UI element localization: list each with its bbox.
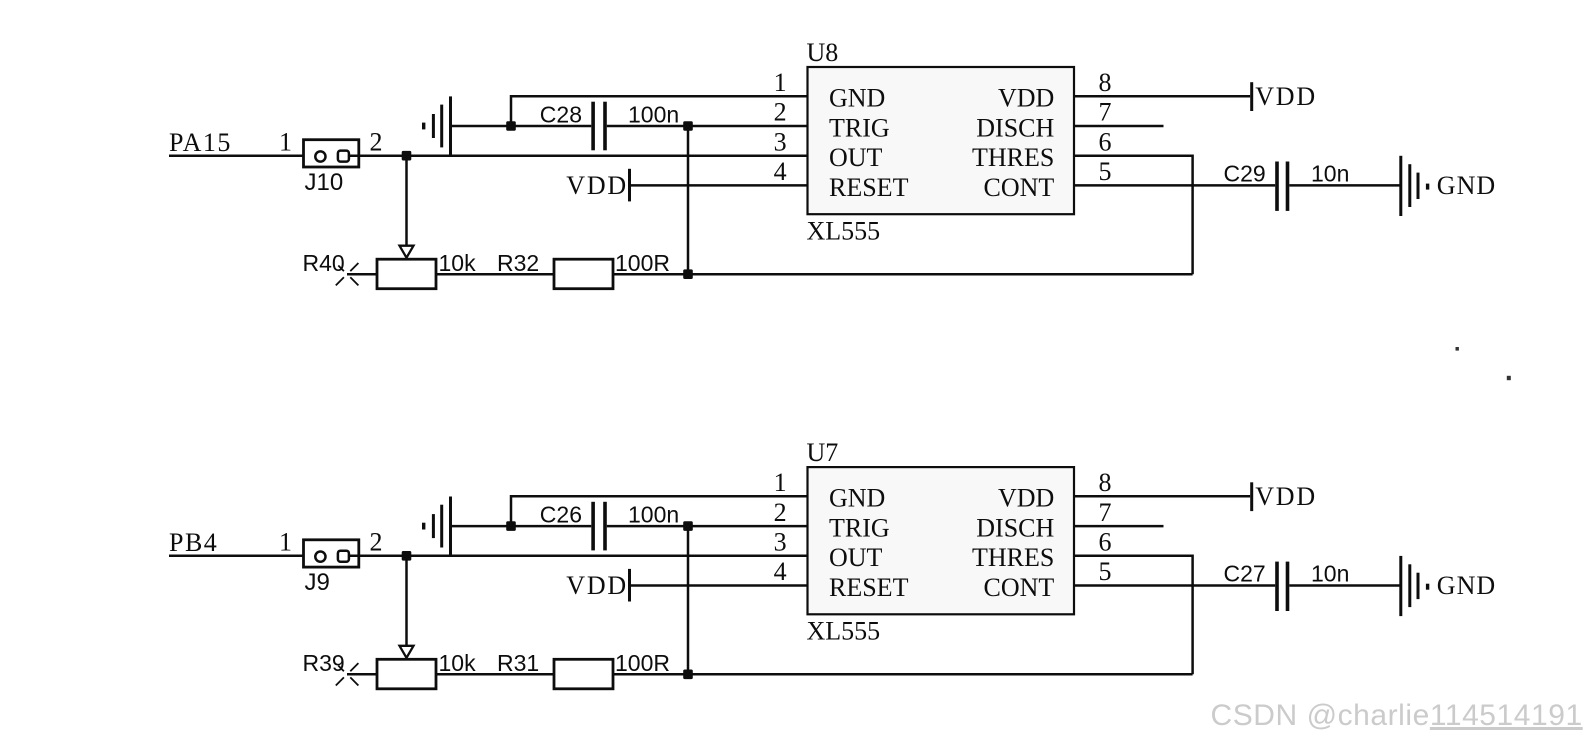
svg-text:100n: 100n	[628, 101, 679, 127]
wire	[1074, 495, 1250, 498]
svg-text:6: 6	[1099, 528, 1112, 557]
wire	[405, 156, 408, 247]
svg-text:10n: 10n	[1311, 161, 1349, 187]
svg-text:VDD: VDD	[566, 571, 628, 600]
wire	[1074, 184, 1275, 187]
svg-text:J9: J9	[305, 569, 330, 596]
svg-text:2: 2	[774, 498, 787, 527]
svg-text:10k: 10k	[439, 650, 477, 676]
svg-text:5: 5	[1099, 157, 1112, 186]
svg-text:2: 2	[774, 98, 787, 127]
resistor R31 body	[554, 659, 613, 689]
power port VDD (reset)	[628, 569, 631, 602]
svg-text:VDD: VDD	[998, 84, 1054, 113]
junction	[506, 521, 516, 531]
svg-text:100R: 100R	[615, 650, 670, 676]
svg-text:R39: R39	[303, 650, 345, 676]
wire	[511, 496, 808, 526]
junction	[683, 670, 693, 680]
svg-text:CONT: CONT	[984, 573, 1055, 602]
wire	[405, 556, 408, 647]
ground symbol GND	[1399, 156, 1402, 216]
svg-text:THRES: THRES	[972, 143, 1054, 172]
wire	[1074, 556, 1193, 675]
svg-text:100n: 100n	[628, 501, 679, 527]
svg-text:OUT: OUT	[829, 143, 883, 172]
svg-text:XL555: XL555	[807, 616, 881, 645]
wire	[613, 273, 1193, 276]
svg-text:3: 3	[774, 127, 787, 156]
svg-text:DISCH: DISCH	[976, 113, 1054, 142]
wire	[1289, 184, 1401, 187]
wire	[436, 273, 554, 276]
wire	[511, 96, 808, 126]
svg-text:GND: GND	[829, 84, 885, 113]
svg-text:1: 1	[774, 468, 787, 497]
junction	[683, 521, 693, 531]
svg-text:U8: U8	[807, 38, 839, 67]
speck	[1456, 347, 1459, 351]
power port VDD (pin 8)	[1250, 82, 1253, 111]
svg-text:7: 7	[1099, 498, 1112, 527]
svg-text:2: 2	[370, 128, 383, 157]
junction	[683, 269, 693, 279]
wire	[1074, 125, 1164, 128]
svg-text:THRES: THRES	[972, 543, 1054, 572]
capacitor C28	[591, 102, 595, 151]
wire	[607, 525, 808, 528]
svg-text:DISCH: DISCH	[976, 514, 1054, 543]
speck	[1507, 376, 1511, 380]
svg-text:1: 1	[774, 68, 787, 97]
wire	[347, 673, 377, 676]
svg-text:VDD: VDD	[998, 484, 1054, 513]
svg-text:10k: 10k	[439, 250, 477, 276]
ground symbol GND	[1399, 556, 1402, 616]
svg-text:CONT: CONT	[984, 173, 1055, 202]
svg-text:5: 5	[1099, 557, 1112, 586]
svg-text:OUT: OUT	[829, 543, 883, 572]
svg-text:4: 4	[774, 557, 787, 586]
potentiometer R40 wiper arrow	[400, 246, 414, 258]
capacitor C26	[591, 502, 595, 551]
svg-text:1: 1	[279, 528, 292, 557]
svg-text:VDD: VDD	[566, 171, 628, 200]
wire	[451, 525, 592, 528]
svg-text:TRIG: TRIG	[829, 113, 890, 142]
svg-text:R40: R40	[303, 250, 345, 276]
potentiometer R39 body	[377, 659, 436, 689]
wire	[630, 184, 808, 187]
ground symbol	[449, 96, 452, 155]
IC U8 XL555	[808, 67, 1075, 214]
svg-text:PA15: PA15	[169, 128, 232, 157]
svg-text:3: 3	[774, 528, 787, 557]
svg-text:4: 4	[774, 157, 787, 186]
potentiometer R40 body	[377, 259, 436, 289]
wire	[687, 126, 690, 274]
IC U7 XL555	[808, 467, 1075, 614]
wire	[349, 555, 808, 558]
svg-text:TRIG: TRIG	[829, 514, 890, 543]
svg-text:10n: 10n	[1311, 561, 1349, 587]
wire	[630, 584, 808, 587]
jumper J9	[304, 540, 359, 567]
junction	[402, 151, 412, 161]
wire	[607, 125, 808, 128]
svg-text:CSDN @charlie114514191: CSDN @charlie114514191	[1211, 699, 1583, 732]
jumper J10	[304, 140, 359, 167]
wire	[169, 555, 316, 558]
junction	[402, 551, 412, 561]
power port VDD (pin 8)	[1250, 482, 1253, 511]
power port VDD (reset)	[628, 169, 631, 202]
wire	[1074, 95, 1250, 98]
svg-text:GND: GND	[1437, 171, 1496, 200]
svg-text:R32: R32	[497, 250, 539, 276]
potentiometer R39 wiper arrow	[400, 646, 414, 658]
capacitor C29	[1275, 162, 1279, 211]
svg-text:7: 7	[1099, 98, 1112, 127]
wire	[349, 154, 808, 157]
svg-text:U7: U7	[807, 438, 839, 467]
no-ERC cross	[350, 263, 358, 271]
no-ERC cross	[350, 663, 358, 671]
wire	[1289, 584, 1401, 587]
wire	[613, 673, 1193, 676]
svg-text:C26: C26	[540, 501, 582, 527]
wire	[169, 154, 316, 157]
junction	[683, 121, 693, 131]
svg-text:8: 8	[1099, 68, 1112, 97]
svg-text:8: 8	[1099, 468, 1112, 497]
svg-text:6: 6	[1099, 127, 1112, 156]
svg-text:100R: 100R	[615, 250, 670, 276]
ground symbol	[449, 497, 452, 557]
wire	[1074, 584, 1275, 587]
svg-text:J10: J10	[305, 169, 344, 196]
junction	[506, 121, 516, 131]
wire	[451, 125, 592, 128]
svg-text:VDD: VDD	[1255, 82, 1317, 111]
svg-text:RESET: RESET	[829, 173, 909, 202]
svg-text:XL555: XL555	[807, 216, 881, 245]
svg-text:C27: C27	[1224, 561, 1266, 587]
svg-text:VDD: VDD	[1255, 482, 1317, 511]
wire	[1074, 156, 1193, 275]
svg-text:GND: GND	[1437, 571, 1496, 600]
svg-text:R31: R31	[497, 650, 539, 676]
wire	[1074, 525, 1164, 528]
svg-text:GND: GND	[829, 484, 885, 513]
svg-text:C28: C28	[540, 101, 582, 127]
svg-text:RESET: RESET	[829, 573, 909, 602]
svg-text:C29: C29	[1224, 161, 1266, 187]
wire	[687, 526, 690, 674]
svg-text:2: 2	[370, 528, 383, 557]
capacitor C27	[1275, 562, 1279, 611]
wire	[436, 673, 554, 676]
resistor R32 body	[554, 259, 613, 289]
svg-text:1: 1	[279, 128, 292, 157]
wire	[347, 273, 377, 276]
svg-text:PB4: PB4	[169, 528, 218, 557]
